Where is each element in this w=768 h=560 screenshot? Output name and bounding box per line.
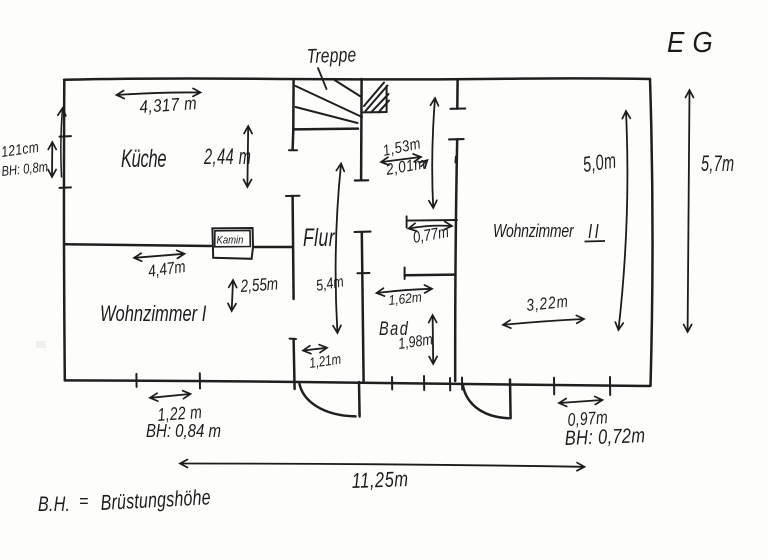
svg-text:Treppe: Treppe bbox=[306, 43, 356, 67]
svg-text:BH: 0,84 m: BH: 0,84 m bbox=[146, 420, 221, 441]
svg-text:II: II bbox=[588, 220, 601, 243]
svg-text:Brüstungshöhe: Brüstungshöhe bbox=[100, 486, 211, 516]
svg-text:Wohnzimmer I: Wohnzimmer I bbox=[100, 302, 207, 327]
svg-text:1,98m: 1,98m bbox=[397, 330, 434, 352]
svg-text:5,7m: 5,7m bbox=[701, 151, 734, 176]
svg-text:1,21m: 1,21m bbox=[308, 350, 342, 371]
svg-text:=: = bbox=[79, 490, 88, 511]
svg-text:3,22m: 3,22m bbox=[525, 292, 569, 315]
svg-text:Kamin: Kamin bbox=[217, 235, 244, 247]
svg-text:5,4m: 5,4m bbox=[315, 272, 346, 294]
svg-text:Wohnzimmer: Wohnzimmer bbox=[493, 220, 575, 242]
svg-text:1,62m: 1,62m bbox=[388, 289, 423, 308]
svg-text:BH: 0,72m: BH: 0,72m bbox=[564, 423, 645, 449]
svg-text:Flur: Flur bbox=[303, 223, 335, 252]
svg-text:2,44 m: 2,44 m bbox=[203, 144, 251, 169]
svg-text:121cm: 121cm bbox=[0, 139, 40, 161]
svg-text:4,47m: 4,47m bbox=[147, 258, 187, 282]
svg-text:Küche: Küche bbox=[121, 146, 166, 173]
svg-text:2,55m: 2,55m bbox=[239, 275, 279, 297]
svg-text:B.H.: B.H. bbox=[38, 492, 70, 516]
svg-text:11,25m: 11,25m bbox=[351, 468, 409, 494]
svg-text:5,0m: 5,0m bbox=[581, 148, 618, 177]
svg-text:BH: 0,8m: BH: 0,8m bbox=[1, 159, 49, 179]
svg-text:4,317 m: 4,317 m bbox=[139, 93, 198, 118]
svg-text:E G: E G bbox=[667, 26, 713, 59]
